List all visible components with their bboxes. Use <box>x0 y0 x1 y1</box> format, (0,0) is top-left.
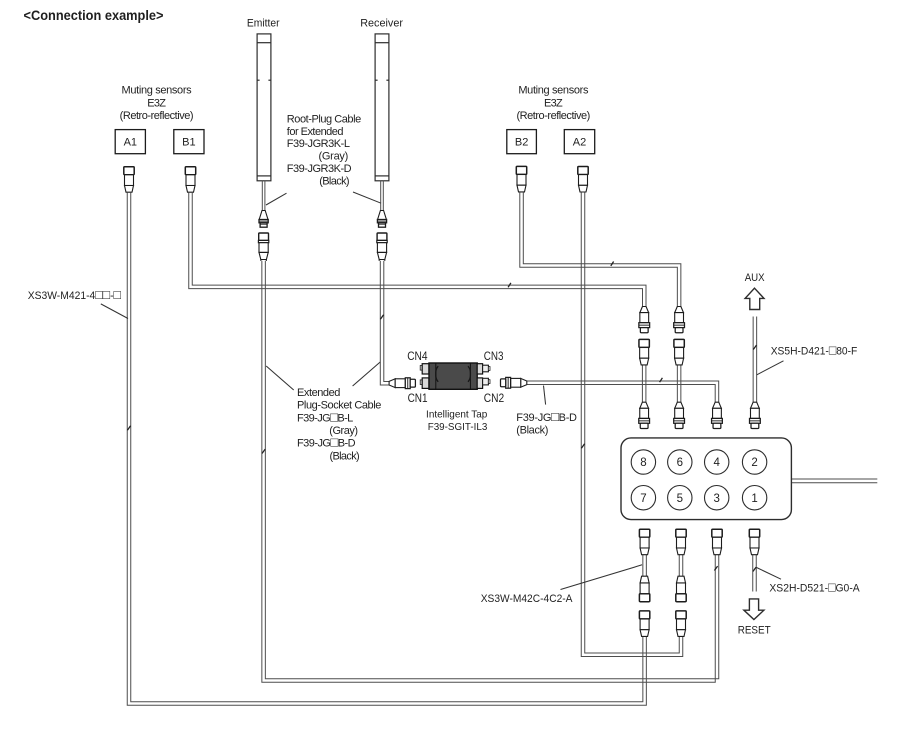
svg-text:(Gray): (Gray) <box>319 151 349 163</box>
tap CN4 port <box>420 366 422 371</box>
leader root-plug to emitter <box>266 193 287 205</box>
svg-text:B2: B2 <box>515 137 528 149</box>
svg-text:8: 8 <box>640 457 646 469</box>
svg-text:A1: A1 <box>124 137 137 149</box>
port 7 <box>631 486 655 510</box>
svg-text:7: 7 <box>640 493 646 505</box>
cable break tick on col C wire <box>714 566 717 570</box>
junction block F39-CN8 <box>621 438 791 520</box>
wire A1 sensor cable to junction block lower col A <box>127 192 646 705</box>
plug pair col A above block <box>639 307 650 333</box>
sensor A1 connector <box>124 167 134 193</box>
svg-text:CN4: CN4 <box>407 351 428 363</box>
sensor B1 box <box>174 130 204 154</box>
svg-text:for Extended: for Extended <box>287 126 344 138</box>
cable break tick on A2 wire <box>581 444 584 448</box>
block plug col B <box>674 402 685 428</box>
wire B2 sensor cable to junction block top col B <box>520 192 681 306</box>
plug on tap CN2 cable <box>501 377 527 388</box>
svg-text:2: 2 <box>751 457 757 469</box>
wire col B below block to mating socket <box>679 555 683 576</box>
junction block connector below col B <box>676 529 686 555</box>
svg-text:A2: A2 <box>573 137 586 149</box>
emitter extension socket <box>258 233 268 261</box>
svg-text:F39-JG□B-L: F39-JG□B-L <box>297 409 353 424</box>
wire col A upper socket to block plug <box>642 365 646 402</box>
svg-text:RESET: RESET <box>738 625 771 637</box>
cable break tick on CN2 run <box>660 378 663 382</box>
svg-text:E3Z: E3Z <box>147 98 166 110</box>
receiver pigtail stem <box>381 181 384 211</box>
svg-text:(Retro-reflective): (Retro-reflective) <box>120 110 194 122</box>
cable break tick on emitter wire <box>262 449 265 453</box>
sensor B1 connector <box>185 167 195 193</box>
svg-text:4: 4 <box>713 457 720 469</box>
leader XS5H <box>757 361 784 375</box>
leader F39-JG B-D <box>544 386 546 405</box>
tap CN2 port <box>477 378 482 389</box>
RESET down arrow <box>744 599 764 620</box>
port 8 <box>631 450 655 474</box>
leader XS2H <box>756 567 781 579</box>
svg-text:Root-Plug Cable: Root-Plug Cable <box>287 113 361 125</box>
sensor B2 box <box>507 130 537 154</box>
sensor A2 connector <box>578 167 588 193</box>
sensor B2 connector <box>516 166 526 192</box>
wire B1 sensor cable to junction block top col A <box>189 192 646 306</box>
svg-text:E3Z: E3Z <box>544 98 563 110</box>
svg-text:<Connection example>: <Connection example> <box>24 8 164 23</box>
cable break tick on AUX wire <box>753 345 756 349</box>
label muting sensors left <box>120 85 194 123</box>
emitter pigtail stem <box>262 181 265 211</box>
svg-text:(Black): (Black) <box>330 450 360 462</box>
svg-text:(Black): (Black) <box>319 175 349 187</box>
tap body <box>429 363 477 389</box>
svg-text:F39-JG□B-D: F39-JG□B-D <box>516 409 577 424</box>
wire col A below block to mating socket <box>643 555 647 576</box>
block plug col D AUX <box>750 402 761 428</box>
leader XS3W-M421 <box>101 304 128 319</box>
tap CN3 port <box>477 364 482 374</box>
cable break tick on B1 run <box>508 283 511 287</box>
svg-text:F39-SGIT-IL3: F39-SGIT-IL3 <box>428 421 488 433</box>
svg-text:CN3: CN3 <box>484 351 504 363</box>
svg-text:5: 5 <box>677 493 683 505</box>
svg-text:(Retro-reflective): (Retro-reflective) <box>516 110 590 122</box>
cable break tick on A1 wire <box>127 426 130 430</box>
svg-text:B1: B1 <box>182 137 195 149</box>
wire junction block output right <box>791 479 877 483</box>
mating socket pair col A below <box>639 576 649 602</box>
receiver root plug <box>377 211 386 228</box>
wire col D below block RESET cable <box>753 555 757 592</box>
wire receiver extension cable to tap CN1 <box>380 261 389 385</box>
svg-text:XS3W-M421-4□□-□: XS3W-M421-4□□-□ <box>28 287 121 302</box>
port 5 <box>668 486 692 510</box>
sensor A1 box <box>115 130 145 154</box>
leader XS3W-M42C <box>561 565 643 590</box>
svg-text:6: 6 <box>677 457 683 469</box>
cable break tick on receiver wire <box>380 315 383 319</box>
label Extended Plug-Socket Cable block <box>297 387 381 463</box>
svg-text:3: 3 <box>713 493 719 505</box>
tap CN1 port <box>420 380 422 385</box>
svg-text:Emitter: Emitter <box>247 18 280 30</box>
svg-text:Muting sensors: Muting sensors <box>518 85 589 97</box>
cable break tick on B2 run <box>611 262 614 266</box>
svg-text:F39-JGR3K-L: F39-JGR3K-L <box>287 138 350 150</box>
mating socket pair col B below <box>676 576 686 602</box>
wire AUX cable col D <box>753 317 757 403</box>
wire col B upper socket to block plug <box>677 365 681 402</box>
port 4 <box>705 450 729 474</box>
AUX up arrow <box>745 288 764 309</box>
label Root-Plug Cable block <box>287 113 361 187</box>
svg-text:CN2: CN2 <box>484 393 504 405</box>
receiver extension socket <box>377 233 387 261</box>
junction block connector below col A <box>639 529 649 555</box>
plug into tap CN1 <box>389 378 415 389</box>
label F39-JG B-D black cable <box>516 409 577 437</box>
leader extended to emitter wire <box>266 366 294 390</box>
svg-text:XS2H-D521-□G0-A: XS2H-D521-□G0-A <box>769 580 860 595</box>
svg-text:XS5H-D421-□80-F: XS5H-D421-□80-F <box>771 343 858 358</box>
leader extended to receiver wire <box>353 362 381 386</box>
intelligent tap F39-SGIT-IL3 <box>420 363 490 389</box>
emitter root plug <box>259 211 268 228</box>
cable break tick on XS2H wire <box>753 567 756 571</box>
port 3 <box>705 486 729 510</box>
junction block connector below col C <box>712 529 722 555</box>
svg-text:AUX: AUX <box>745 272 765 284</box>
sensor A2 box <box>564 130 594 154</box>
svg-text:Receiver: Receiver <box>360 18 403 30</box>
svg-text:Intelligent Tap: Intelligent Tap <box>426 409 487 421</box>
svg-text:(Black): (Black) <box>516 425 548 437</box>
plug pair col B above block <box>674 307 685 333</box>
emitter bar F3SG <box>257 34 271 181</box>
svg-text:F39-JGR3K-D: F39-JGR3K-D <box>287 163 352 175</box>
receiver bar F3SG <box>375 34 389 181</box>
svg-text:Extended: Extended <box>297 387 340 399</box>
block plug col A <box>639 402 650 428</box>
svg-text:Muting sensors: Muting sensors <box>122 85 193 97</box>
leader root-plug to receiver <box>353 192 381 203</box>
wire tap CN2 cable to junction block top col C <box>527 381 719 402</box>
label muting sensors right <box>516 85 590 123</box>
port 1 <box>742 486 766 510</box>
svg-text:CN1: CN1 <box>408 393 428 405</box>
port 2 <box>742 450 766 474</box>
svg-text:F39-JG□B-D: F39-JG□B-D <box>297 435 356 450</box>
block plug col C <box>712 402 723 428</box>
svg-text:Plug-Socket Cable: Plug-Socket Cable <box>297 400 381 412</box>
svg-text:XS3W-M42C-4C2-A: XS3W-M42C-4C2-A <box>481 593 573 605</box>
wire emitter extension cable to junction block bottom col C <box>262 261 719 683</box>
svg-text:1: 1 <box>751 493 757 505</box>
junction block connector below col D <box>749 529 759 555</box>
wire A2 sensor cable to junction block lower col B <box>581 192 683 656</box>
port 6 <box>668 450 692 474</box>
